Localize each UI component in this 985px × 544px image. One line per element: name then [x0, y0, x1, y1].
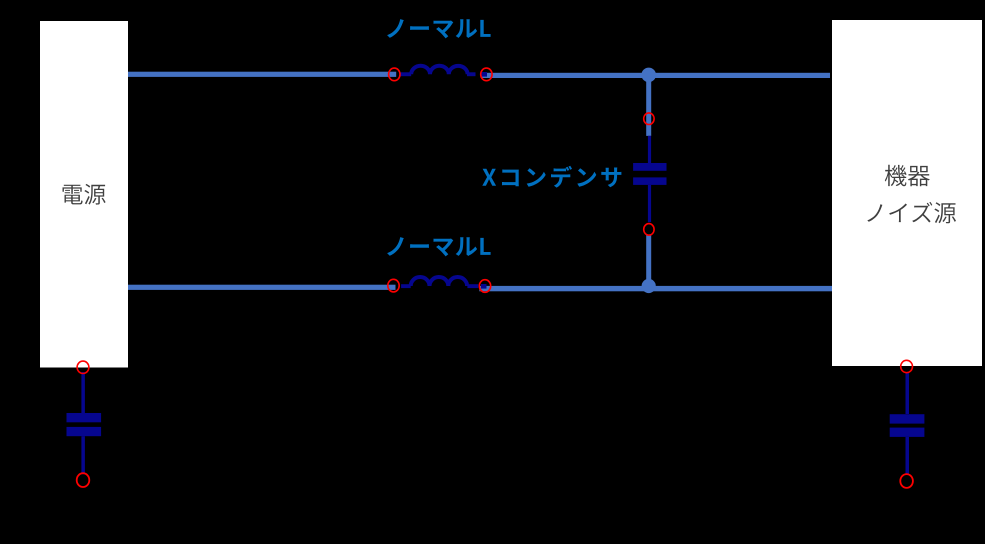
node B: junction dot on bottom bus [642, 279, 656, 293]
inductor L2: coil body [411, 277, 467, 286]
capacitor C1: plates [67, 413, 102, 436]
node A: junction dot on top bus [641, 68, 656, 83]
terminal pin 2 of C2 (red circle) [900, 474, 913, 488]
wire: vertical stub from node A down to CX top terminal [646, 75, 651, 136]
terminal pin 2 of L1 (red circle) [481, 68, 492, 81]
terminal pin 2 of CX (red circle) [644, 224, 654, 236]
value label ノーマルL for inductor L2 [387, 237, 491, 256]
capacitor C2: bottom lead wire [906, 437, 910, 475]
inductor L2: left lead [401, 284, 411, 288]
wire: bottom bus, inductor L2 to equipment box (through node B) [479, 286, 833, 291]
terminal pin 2 of C1 (red circle) [77, 473, 90, 487]
inductor L1: coil body [411, 66, 467, 75]
capacitor CX: plates [633, 163, 666, 185]
value label ノーマルL for inductor L1 [387, 19, 491, 38]
terminal pin 1 of C1 (red circle) [77, 361, 89, 373]
value label Xコンデンサ for capacitor CX [482, 166, 621, 188]
capacitor CX: top lead wire [648, 136, 651, 163]
inductor L2: right lead [467, 284, 486, 289]
equipment / noise source box 機器 ノイズ源 [832, 20, 982, 366]
inductor L1: left lead [400, 72, 412, 76]
capacitor C1: bottom lead wire [81, 436, 85, 474]
capacitor C2 (below equipment box): top lead wire [906, 372, 910, 414]
terminal pin 1 of CX (red circle) [644, 113, 654, 125]
terminal pin 1 of L2 (red circle) [388, 279, 399, 292]
terminal pin 1 of C2 (red circle) [901, 360, 913, 372]
wire: bottom bus, power box to inductor L2 [127, 285, 396, 290]
terminal pin 1 of L1 (red circle) [389, 68, 400, 81]
capacitor CX: bottom lead wire [648, 185, 651, 222]
wire: vertical stub from CX bottom terminal down to node B [646, 235, 651, 286]
capacitor C1 (below power box): top lead wire [81, 372, 85, 413]
wire: top bus, inductor L1 to equipment box (through node A) [481, 73, 830, 78]
wire: top bus, power box to inductor L1 [127, 72, 396, 77]
power source box 電源 [40, 21, 128, 368]
capacitor C2: plates [890, 414, 925, 437]
inductor L1: right lead [467, 72, 487, 77]
terminal pin 2 of L2 (red circle) [479, 280, 490, 293]
